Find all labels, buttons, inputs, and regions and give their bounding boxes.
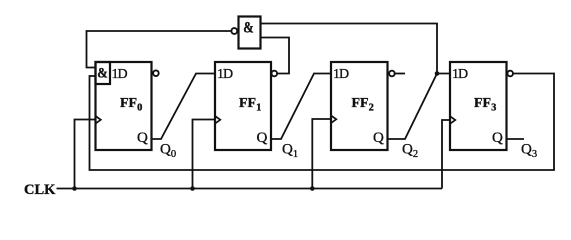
svg-text:Q: Q [137,130,148,146]
svg-text:1D: 1D [112,67,128,82]
svg-text:1D: 1D [333,67,349,82]
svg-text:Q: Q [257,130,268,146]
svg-text:1D: 1D [217,67,233,82]
svg-text:Q: Q [373,130,384,146]
svg-text:CLK: CLK [24,182,56,198]
svg-text:&: & [243,20,254,37]
svg-text:&: & [97,66,108,82]
svg-text:1D: 1D [452,67,468,82]
svg-text:Q: Q [492,130,503,146]
